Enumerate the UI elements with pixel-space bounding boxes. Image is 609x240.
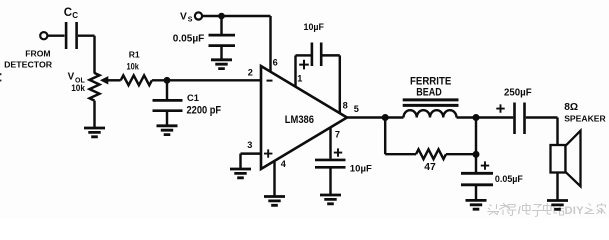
svg-text:0.05µF: 0.05µF — [173, 34, 205, 45]
svg-text:7: 7 — [335, 130, 340, 140]
svg-text:V: V — [180, 11, 187, 22]
svg-text:4: 4 — [281, 159, 287, 169]
svg-text:10µF: 10µF — [304, 22, 325, 33]
svg-text:3: 3 — [247, 140, 252, 150]
svg-text:DETECTOR: DETECTOR — [4, 59, 53, 69]
svg-text:2: 2 — [248, 67, 253, 77]
svg-text:10k: 10k — [71, 83, 85, 94]
svg-text:250µF: 250µF — [504, 88, 532, 99]
svg-text:0.05µF: 0.05µF — [495, 174, 523, 185]
svg-text:R1: R1 — [129, 50, 140, 60]
svg-text:SPEAKER: SPEAKER — [564, 113, 606, 123]
svg-text:5: 5 — [354, 104, 359, 114]
svg-text:10µF: 10µF — [350, 163, 372, 174]
svg-text:/: / — [518, 205, 521, 217]
svg-text:C: C — [72, 11, 78, 20]
svg-text:8: 8 — [343, 100, 348, 110]
svg-text:FERRITE: FERRITE — [410, 75, 451, 87]
svg-text:FROM: FROM — [25, 48, 50, 58]
svg-text:10k: 10k — [127, 61, 140, 72]
svg-text:1: 1 — [297, 74, 302, 84]
svg-text:C1: C1 — [187, 93, 199, 103]
svg-text:6: 6 — [273, 58, 278, 68]
svg-text:2200 pF: 2200 pF — [187, 104, 222, 116]
svg-text:LM386: LM386 — [285, 114, 314, 126]
svg-text:S: S — [188, 17, 193, 24]
svg-text:BEAD: BEAD — [416, 87, 442, 99]
svg-text:V: V — [68, 71, 75, 82]
svg-text:47: 47 — [424, 162, 436, 173]
svg-text:8Ω: 8Ω — [564, 102, 578, 113]
svg-text:DIY: DIY — [565, 205, 585, 217]
svg-text:C: C — [64, 7, 72, 19]
